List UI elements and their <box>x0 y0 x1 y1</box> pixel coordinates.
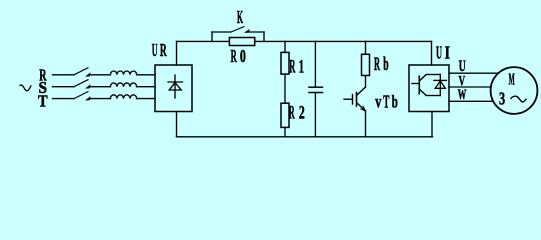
svg-text:R: R <box>231 46 238 66</box>
svg-text:R: R <box>289 56 295 77</box>
svg-text:R: R <box>374 55 380 75</box>
svg-text:b: b <box>392 91 398 111</box>
svg-text:1: 1 <box>299 56 305 77</box>
svg-text:U: U <box>436 43 442 63</box>
svg-text:v: v <box>375 91 381 111</box>
svg-text:U: U <box>459 58 466 75</box>
svg-text:M: M <box>509 69 515 88</box>
svg-text:b: b <box>383 55 388 75</box>
svg-text:R: R <box>160 40 167 60</box>
svg-text:T: T <box>38 92 48 111</box>
svg-text:K: K <box>237 7 243 27</box>
svg-text:3: 3 <box>499 89 505 109</box>
svg-text:2: 2 <box>299 103 305 124</box>
svg-text:I: I <box>445 43 450 63</box>
svg-text:0: 0 <box>240 46 246 66</box>
svg-text:W: W <box>458 87 467 103</box>
svg-text:T: T <box>383 91 389 111</box>
svg-text:U: U <box>152 40 158 60</box>
svg-text:R: R <box>289 103 295 124</box>
